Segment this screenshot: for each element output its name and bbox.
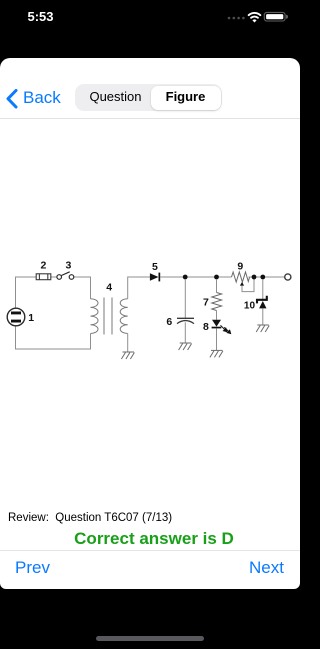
AC source 1	[7, 308, 25, 326]
svg-text:7: 7	[203, 297, 209, 309]
home indicator	[96, 636, 204, 641]
wire left-loop left vertical upper	[15, 277, 17, 309]
pot 9 wiper arrow	[240, 279, 254, 292]
status bar time	[28, 9, 54, 24]
wire left-loop top: source to fuse	[15, 276, 36, 278]
svg-text:8: 8	[203, 321, 209, 333]
status bar right icons	[222, 8, 292, 26]
segment label Figure	[151, 83, 221, 110]
wire right vertical to primary	[90, 277, 92, 299]
segmented control	[75, 84, 222, 111]
wifi icon	[249, 13, 261, 18]
switch 3	[57, 272, 74, 280]
svg-text:1: 1	[28, 312, 34, 324]
navbar separator	[0, 118, 300, 119]
node dot (cap branch)	[183, 275, 188, 280]
node dot (R7 branch)	[214, 275, 219, 280]
review line	[8, 512, 172, 524]
ground (capacitor 6)	[179, 343, 192, 350]
prev button	[15, 558, 50, 578]
wire left-loop bottom	[15, 348, 91, 350]
white sheet card	[0, 58, 300, 589]
battery	[264, 12, 288, 21]
LED 8 arrows	[221, 325, 231, 333]
svg-text:3: 3	[66, 259, 72, 271]
signal dots	[228, 17, 245, 20]
back label	[23, 88, 61, 108]
zener diode 10	[257, 279, 267, 325]
wire left-loop left vertical lower	[15, 326, 17, 350]
node dot (zener branch)	[260, 275, 265, 280]
output terminal	[285, 274, 291, 280]
svg-text:2: 2	[41, 259, 47, 271]
ground (LED 8)	[210, 350, 223, 357]
wire secondary bottom to ground	[127, 334, 129, 353]
segment label Question	[78, 83, 153, 110]
back chevron	[5, 89, 19, 109]
toolbar separator	[0, 550, 300, 551]
svg-text:5: 5	[152, 261, 158, 273]
CIRCUIT SCHEMATIC	[0, 250, 300, 370]
LED 8	[212, 320, 222, 329]
diode 5	[150, 273, 160, 282]
correct answer line	[4, 529, 304, 549]
svg-text:6: 6	[166, 316, 172, 328]
ground (transformer secondary)	[121, 352, 134, 359]
fuse 2	[36, 274, 51, 280]
next button	[249, 558, 284, 578]
node dot (wiper)	[252, 275, 257, 280]
ground (zener 10)	[256, 325, 269, 332]
svg-text:9: 9	[237, 261, 243, 273]
transformer T primary winding	[91, 299, 99, 334]
wire primary bottom to loop bottom	[90, 334, 92, 350]
transformer core lines	[104, 298, 112, 335]
svg-text:10: 10	[244, 300, 256, 311]
transformer secondary winding	[120, 299, 128, 334]
selected segment pill	[151, 86, 221, 110]
wire R9 to output	[249, 276, 285, 278]
wire switch to top-right corner	[74, 276, 91, 278]
potentiometer 9	[232, 272, 250, 282]
wire LED to ground	[216, 328, 218, 350]
resistor 7	[212, 279, 222, 320]
wire fuse to switch	[51, 276, 57, 278]
capacitor 6	[177, 279, 194, 343]
svg-text:4: 4	[106, 281, 112, 293]
wire secondary top to rail	[128, 277, 150, 299]
wire diode to R9	[160, 276, 231, 278]
